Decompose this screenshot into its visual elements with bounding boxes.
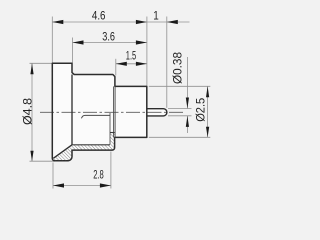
arrow dia0.38 bottom outside xyxy=(186,116,189,127)
svg-text:1.5: 1.5 xyxy=(126,49,137,63)
svg-text:2.8: 2.8 xyxy=(93,167,104,181)
arrow dia4.8 top xyxy=(30,63,33,74)
step face edge inner xyxy=(113,86,115,137)
extension line top dia 4.8 xyxy=(30,62,53,64)
extension line right 4.6/3.6/1.5 xyxy=(146,17,148,87)
svg-text:3.6: 3.6 xyxy=(102,29,115,43)
center pin xyxy=(147,109,167,116)
extension line bottom dia 2.5 xyxy=(149,136,211,138)
arrow 2.8 right xyxy=(100,183,111,187)
barrel wall inner edge xyxy=(72,144,110,146)
arrow dia2.5 bottom xyxy=(206,127,209,138)
extension line bottom dia 4.8 xyxy=(30,160,55,162)
arrow 1 outside xyxy=(167,20,178,24)
arrow 1.5 left xyxy=(116,62,127,66)
wire: dimension line 4.6 and 1 xyxy=(52,21,189,23)
connector body outline xyxy=(52,63,147,161)
bore cap edge xyxy=(110,132,115,134)
wire: dimension line 2.8 xyxy=(53,185,111,187)
extension line left 4.6 xyxy=(51,17,53,63)
wire: dimension line dia 4.8 xyxy=(31,63,33,161)
wire: dimension line dia 0.38 upper xyxy=(186,57,188,108)
svg-text:1: 1 xyxy=(153,9,159,23)
extension line pin top dia 0.38 xyxy=(168,108,192,110)
flange right face edge xyxy=(71,75,73,145)
extension line top dia 2.5 xyxy=(149,85,211,87)
arrow 2.8 left xyxy=(53,183,64,187)
arrow 4.6 right xyxy=(136,20,147,24)
svg-text:4.6: 4.6 xyxy=(92,8,106,22)
inner bore lower edge xyxy=(81,115,110,118)
arrow dia0.38 top outside xyxy=(186,98,189,109)
centerline xyxy=(40,111,183,113)
extension line left 3.6 xyxy=(72,38,74,64)
extension line left 2.8 xyxy=(52,163,54,189)
hatch step wall section xyxy=(110,133,115,151)
extension line pin bottom dia 0.38 xyxy=(168,115,192,117)
bore end face edge xyxy=(109,113,111,144)
arrow 3.6 left xyxy=(73,40,84,44)
arrow 4.6 left xyxy=(52,20,63,24)
wire: dimension line dia 0.38 lower xyxy=(186,116,188,133)
hatch barrel wall section xyxy=(72,145,110,150)
svg-text:Ø0.38: Ø0.38 xyxy=(172,52,184,84)
extension line right 1 at pin tip xyxy=(166,17,168,108)
connector body fill xyxy=(52,63,147,161)
arrow dia4.8 bottom xyxy=(30,151,33,162)
arrow 1.5 right xyxy=(136,62,147,66)
arrow dia2.5 top xyxy=(206,86,209,97)
hatch flange section xyxy=(53,145,72,161)
wire: dimension line 3.6 xyxy=(73,42,147,44)
pin fill xyxy=(147,109,167,116)
svg-text:Ø2.5: Ø2.5 xyxy=(196,98,208,122)
wire: dimension line dia 2.5 xyxy=(207,86,209,137)
arrow 3.6 right xyxy=(136,40,147,44)
extension line left 1.5 xyxy=(115,59,117,76)
wire: dimension line 1.5 xyxy=(116,63,147,65)
svg-text:Ø4.8: Ø4.8 xyxy=(23,98,35,125)
extension line right 2.8 xyxy=(110,152,112,189)
step face edge outer xyxy=(114,86,116,137)
cone inner diagonal edge xyxy=(53,145,72,159)
